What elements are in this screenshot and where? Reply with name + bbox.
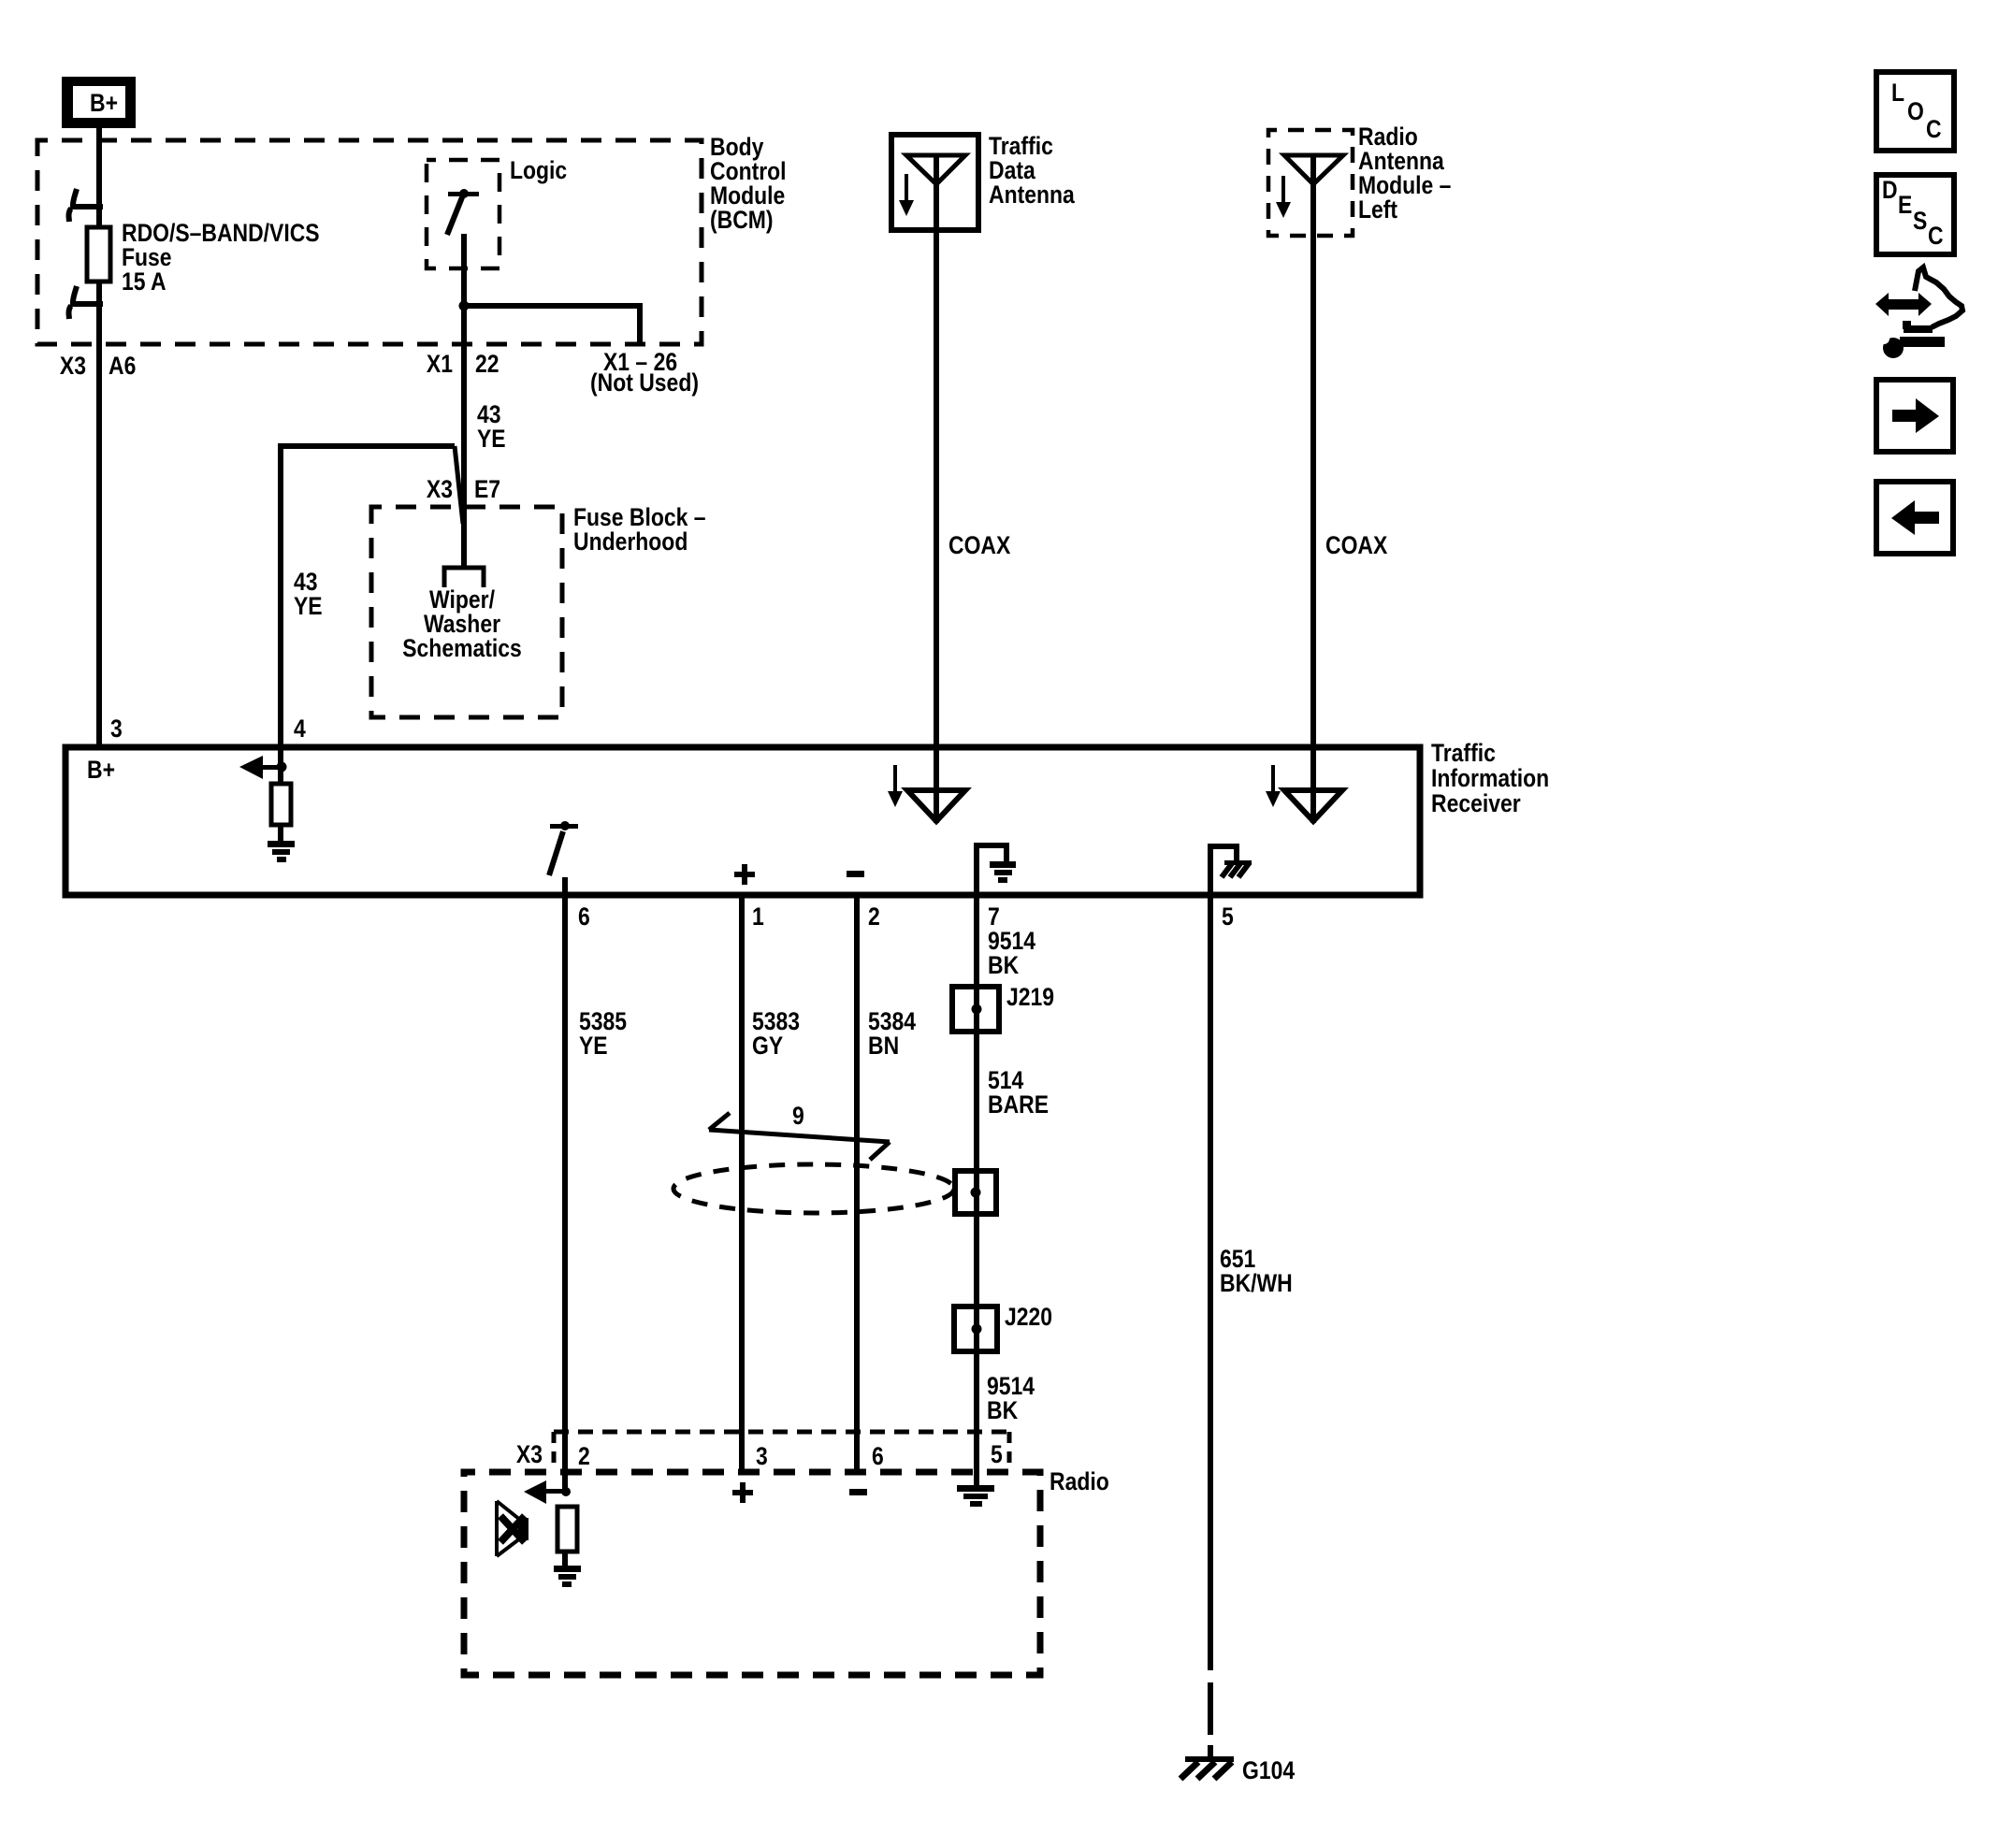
svg-text:3: 3 [110, 715, 123, 743]
schematic/wrench icon [1875, 267, 1962, 358]
svg-text:COAX: COAX [948, 531, 1011, 559]
antenna symbol in receiver left [888, 765, 965, 821]
LOC icon box [1876, 72, 1954, 151]
radio connector X3 dashed strip [554, 1432, 1011, 1466]
svg-text:C: C [1928, 222, 1944, 250]
svg-text:BK/WH: BK/WH [1220, 1269, 1293, 1297]
svg-text:X3: X3 [516, 1440, 543, 1468]
wire pin 7 to radio [974, 896, 979, 1487]
wire pin 5 down [1208, 896, 1213, 1670]
svg-text:YE: YE [294, 592, 323, 620]
ground in radio [554, 1566, 581, 1587]
down arrow in radio antenna box [1276, 176, 1291, 218]
wire pin 6 to radio [562, 896, 568, 1494]
dashed wire to G104 [1208, 1682, 1213, 1762]
Traffic Data Antenna box [891, 135, 978, 230]
svg-text:(Not Used): (Not Used) [590, 368, 699, 397]
fuse clip top [69, 189, 104, 222]
svg-text:(BCM): (BCM) [710, 206, 774, 234]
svg-text:L: L [1891, 79, 1904, 107]
svg-text:3: 3 [756, 1442, 768, 1470]
svg-text:Antenna: Antenna [989, 180, 1076, 209]
svg-text:Schematics: Schematics [402, 634, 522, 662]
svg-text:2: 2 [578, 1442, 590, 1470]
twisted pair marker with label 9 [709, 1113, 890, 1160]
svg-text:BARE: BARE [988, 1090, 1049, 1119]
svg-text:15 A: 15 A [122, 267, 166, 296]
wire resistor to ground [278, 825, 283, 842]
svg-text:9: 9 [792, 1102, 804, 1130]
svg-text:E: E [1898, 191, 1912, 219]
DESC icon box [1876, 175, 1954, 254]
svg-text:22: 22 [475, 350, 499, 378]
svg-text:S: S [1913, 207, 1927, 235]
fuse RDO/S-BAND/VICS 15A body [87, 227, 110, 282]
logic switch [447, 189, 479, 309]
svg-text:J219: J219 [1006, 983, 1054, 1011]
left arrow icon box [1876, 482, 1953, 554]
B+ power symbol [62, 77, 136, 128]
minus sign in radio [849, 1489, 867, 1495]
svg-text:Radio: Radio [1050, 1467, 1109, 1495]
Radio Antenna Module dashed box [1268, 130, 1353, 236]
chassis ground pin 5 inside receiver [1208, 844, 1252, 896]
off-page terminal in fuse block [444, 568, 484, 587]
wire pin 1 to radio [739, 896, 745, 1474]
svg-text:BK: BK [988, 951, 1019, 979]
Logic dashed box [427, 160, 499, 268]
G104 ground [1180, 1756, 1234, 1779]
svg-text:Receiver: Receiver [1431, 789, 1521, 817]
svg-text:BK: BK [987, 1396, 1018, 1424]
svg-text:A6: A6 [109, 352, 136, 380]
diagonal merge wire [455, 446, 463, 524]
svg-text:X3: X3 [427, 475, 453, 503]
svg-text:Information: Information [1431, 764, 1549, 792]
svg-text:Logic: Logic [510, 156, 567, 184]
plus sign pin 1 [734, 864, 755, 885]
svg-text:O: O [1907, 97, 1924, 125]
wire junction to X1-26 [464, 306, 640, 344]
svg-text:5: 5 [1222, 902, 1234, 931]
antenna stem / coax wire to receiver right [1310, 155, 1316, 823]
wire BCM X1-22 down to fuse block [461, 309, 467, 568]
antenna symbol in receiver right [1266, 765, 1342, 821]
Traffic Information Receiver box [65, 747, 1420, 895]
right arrow icon box [1876, 380, 1953, 452]
BCM dashed box [37, 140, 702, 344]
antenna stem / coax wire to receiver [934, 155, 939, 823]
junction and left arrow in radio [524, 1480, 571, 1504]
svg-text:2: 2 [868, 902, 880, 931]
svg-text:X3: X3 [60, 352, 86, 380]
svg-text:COAX: COAX [1325, 531, 1388, 559]
Radio dashed box [464, 1472, 1040, 1675]
svg-text:E7: E7 [474, 475, 500, 503]
svg-text:6: 6 [578, 902, 590, 931]
svg-text:G104: G104 [1242, 1756, 1295, 1784]
svg-text:GY: GY [752, 1032, 783, 1060]
svg-text:B+: B+ [87, 756, 115, 784]
wire B+ to receiver pin 3 [96, 128, 102, 745]
svg-text:J220: J220 [1005, 1303, 1052, 1331]
antenna symbol traffic [906, 155, 965, 184]
ground pin 5 in radio [957, 1485, 994, 1507]
muted speaker icon [497, 1501, 528, 1556]
antenna symbol radio [1284, 155, 1343, 184]
down arrow in antenna box [899, 174, 914, 216]
fuse clip bottom [69, 286, 104, 319]
svg-text:5: 5 [991, 1440, 1003, 1468]
svg-text:YE: YE [579, 1032, 608, 1060]
Fuse Block - Underhood dashed box [371, 507, 562, 717]
dashed twist ellipse [673, 1164, 954, 1213]
wire pin 4 into receiver with left arrow [239, 747, 287, 785]
svg-text:4: 4 [294, 715, 306, 743]
svg-text:6: 6 [872, 1442, 884, 1470]
splice J220 [954, 1307, 997, 1351]
svg-text:X1: X1 [427, 350, 453, 378]
svg-text:YE: YE [477, 425, 506, 453]
splice in ellipse [955, 1171, 996, 1214]
svg-text:B+: B+ [90, 89, 118, 117]
svg-text:Traffic: Traffic [1431, 739, 1496, 767]
plus sign in radio [732, 1482, 753, 1503]
wire resistor to ground in radio [562, 1552, 568, 1566]
resistor in receiver [271, 784, 291, 825]
minus sign pin 2 [847, 871, 864, 877]
svg-text:1: 1 [752, 902, 764, 931]
splice J219 [952, 987, 999, 1032]
svg-text:C: C [1926, 115, 1942, 143]
wire pin 2 to radio [854, 896, 860, 1474]
ground symbol in receiver [268, 841, 295, 862]
switch at pin 6 in receiver [549, 821, 578, 896]
resistor in radio [557, 1507, 577, 1552]
ground symbol pin 7 inside receiver [974, 843, 1016, 896]
svg-text:BN: BN [868, 1032, 899, 1060]
svg-text:Underhood: Underhood [573, 527, 688, 556]
branch wire to receiver pin 4 [281, 446, 455, 744]
svg-text:Left: Left [1358, 195, 1398, 224]
svg-text:D: D [1882, 176, 1898, 204]
junction node in BCM [459, 301, 470, 311]
